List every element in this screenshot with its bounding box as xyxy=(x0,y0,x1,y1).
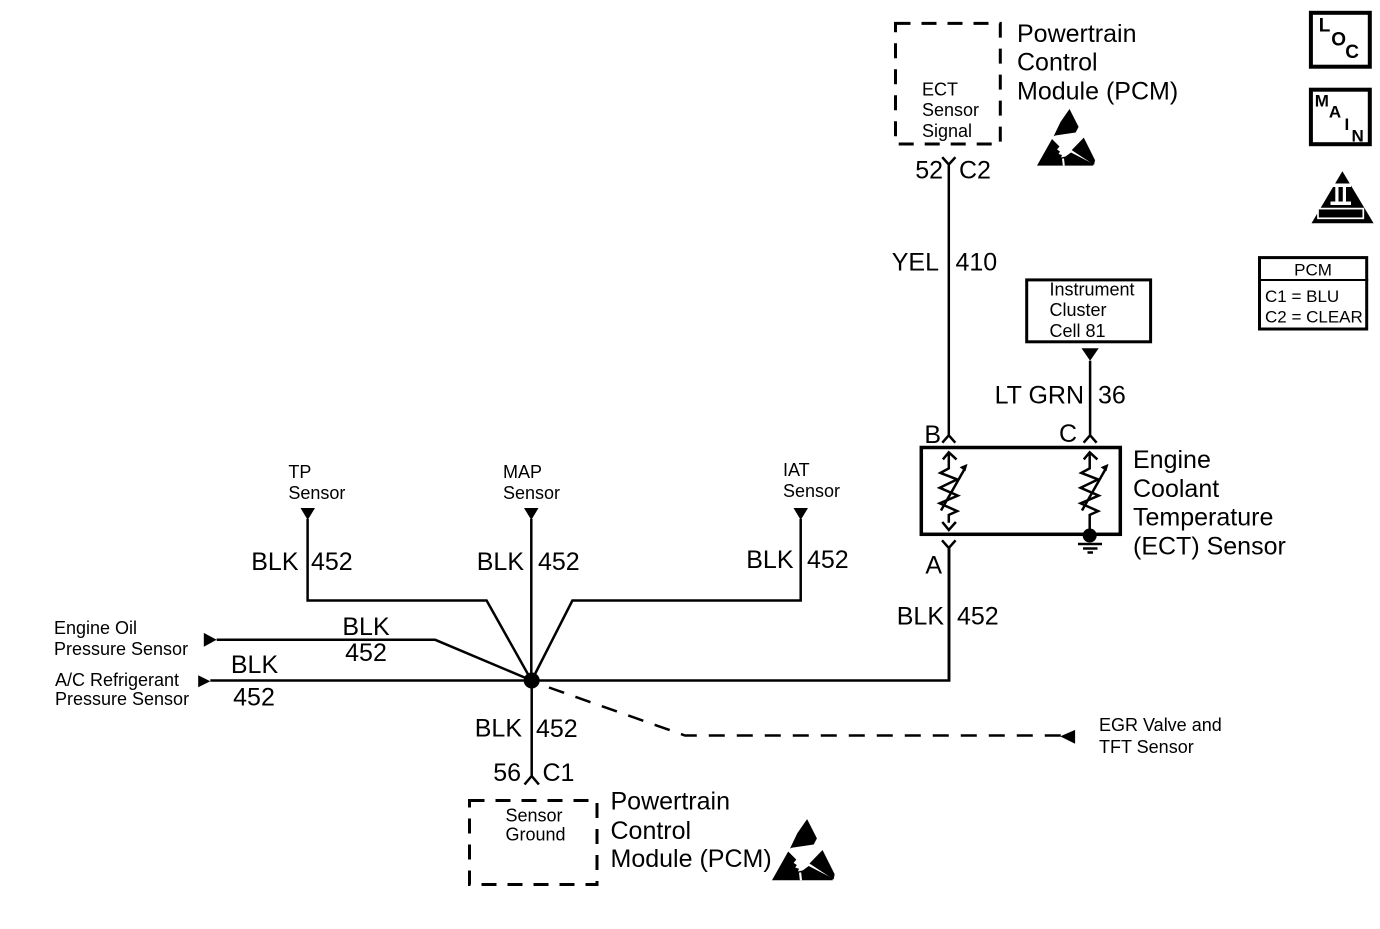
svg-text:C2 = CLEAR: C2 = CLEAR xyxy=(1265,308,1363,327)
svg-text:C1: C1 xyxy=(543,759,575,787)
svg-text:IAT: IAT xyxy=(783,460,810,480)
svg-text:L: L xyxy=(1319,16,1331,37)
svg-text:(ECT) Sensor: (ECT) Sensor xyxy=(1133,533,1286,561)
svg-text:C: C xyxy=(1345,42,1359,63)
svg-text:LT GRN: LT GRN xyxy=(995,382,1084,410)
svg-text:452: 452 xyxy=(807,546,849,574)
svg-text:C: C xyxy=(1059,420,1077,448)
svg-text:36: 36 xyxy=(1098,382,1126,410)
svg-text:OBD II: OBD II xyxy=(1323,208,1358,220)
svg-text:BLK: BLK xyxy=(342,613,390,641)
svg-text:BLK: BLK xyxy=(231,651,279,679)
svg-text:Control: Control xyxy=(1017,49,1098,77)
svg-text:O: O xyxy=(1331,30,1346,51)
svg-text:52: 52 xyxy=(915,157,943,185)
svg-text:452: 452 xyxy=(233,684,275,712)
svg-text:C1 = BLU: C1 = BLU xyxy=(1265,287,1339,306)
svg-text:BLK: BLK xyxy=(251,548,299,576)
svg-text:N: N xyxy=(1352,127,1364,146)
svg-text:EGR Valve and: EGR Valve and xyxy=(1099,715,1222,735)
svg-text:410: 410 xyxy=(956,249,998,277)
svg-text:Ground: Ground xyxy=(506,824,566,844)
svg-text:452: 452 xyxy=(538,548,580,576)
svg-text:Coolant: Coolant xyxy=(1133,475,1219,503)
svg-text:BLK: BLK xyxy=(475,715,523,743)
svg-text:C2: C2 xyxy=(959,157,991,185)
svg-text:Cluster: Cluster xyxy=(1050,300,1107,320)
svg-text:Temperature: Temperature xyxy=(1133,504,1273,532)
svg-text:BLK: BLK xyxy=(746,546,794,574)
svg-text:Powertrain: Powertrain xyxy=(611,788,731,816)
svg-text:PCM: PCM xyxy=(1294,260,1332,279)
svg-text:Pressure Sensor: Pressure Sensor xyxy=(55,689,189,709)
svg-text:Sensor: Sensor xyxy=(503,483,560,503)
svg-text:TFT Sensor: TFT Sensor xyxy=(1099,737,1194,757)
svg-text:56: 56 xyxy=(493,759,521,787)
svg-text:MAP: MAP xyxy=(503,462,542,482)
svg-text:Cell 81: Cell 81 xyxy=(1050,321,1106,341)
svg-text:A: A xyxy=(1329,102,1341,121)
svg-text:452: 452 xyxy=(345,639,387,667)
svg-text:A: A xyxy=(925,552,942,580)
svg-text:B: B xyxy=(924,421,941,449)
svg-text:BLK: BLK xyxy=(897,603,945,631)
svg-text:TP: TP xyxy=(288,462,311,482)
svg-text:452: 452 xyxy=(536,715,578,743)
svg-text:Signal: Signal xyxy=(922,121,972,141)
svg-text:Powertrain: Powertrain xyxy=(1017,20,1137,48)
svg-text:Engine: Engine xyxy=(1133,446,1211,474)
svg-text:M: M xyxy=(1315,91,1329,110)
svg-text:Module (PCM): Module (PCM) xyxy=(1017,78,1178,106)
svg-text:A/C Refrigerant: A/C Refrigerant xyxy=(55,670,179,690)
svg-text:ECT: ECT xyxy=(922,80,958,100)
svg-text:I: I xyxy=(1345,115,1350,134)
svg-text:452: 452 xyxy=(957,603,999,631)
svg-text:YEL: YEL xyxy=(892,249,939,277)
svg-text:Sensor: Sensor xyxy=(922,100,979,120)
svg-text:452: 452 xyxy=(311,548,353,576)
svg-text:Instrument: Instrument xyxy=(1050,280,1135,300)
svg-text:Sensor: Sensor xyxy=(288,483,345,503)
svg-text:Pressure Sensor: Pressure Sensor xyxy=(54,639,188,659)
svg-text:Control: Control xyxy=(611,817,692,845)
svg-text:Sensor: Sensor xyxy=(783,481,840,501)
svg-text:Sensor: Sensor xyxy=(506,805,563,825)
svg-text:Engine Oil: Engine Oil xyxy=(54,618,137,638)
svg-text:Module (PCM): Module (PCM) xyxy=(611,845,772,873)
svg-text:BLK: BLK xyxy=(477,548,525,576)
